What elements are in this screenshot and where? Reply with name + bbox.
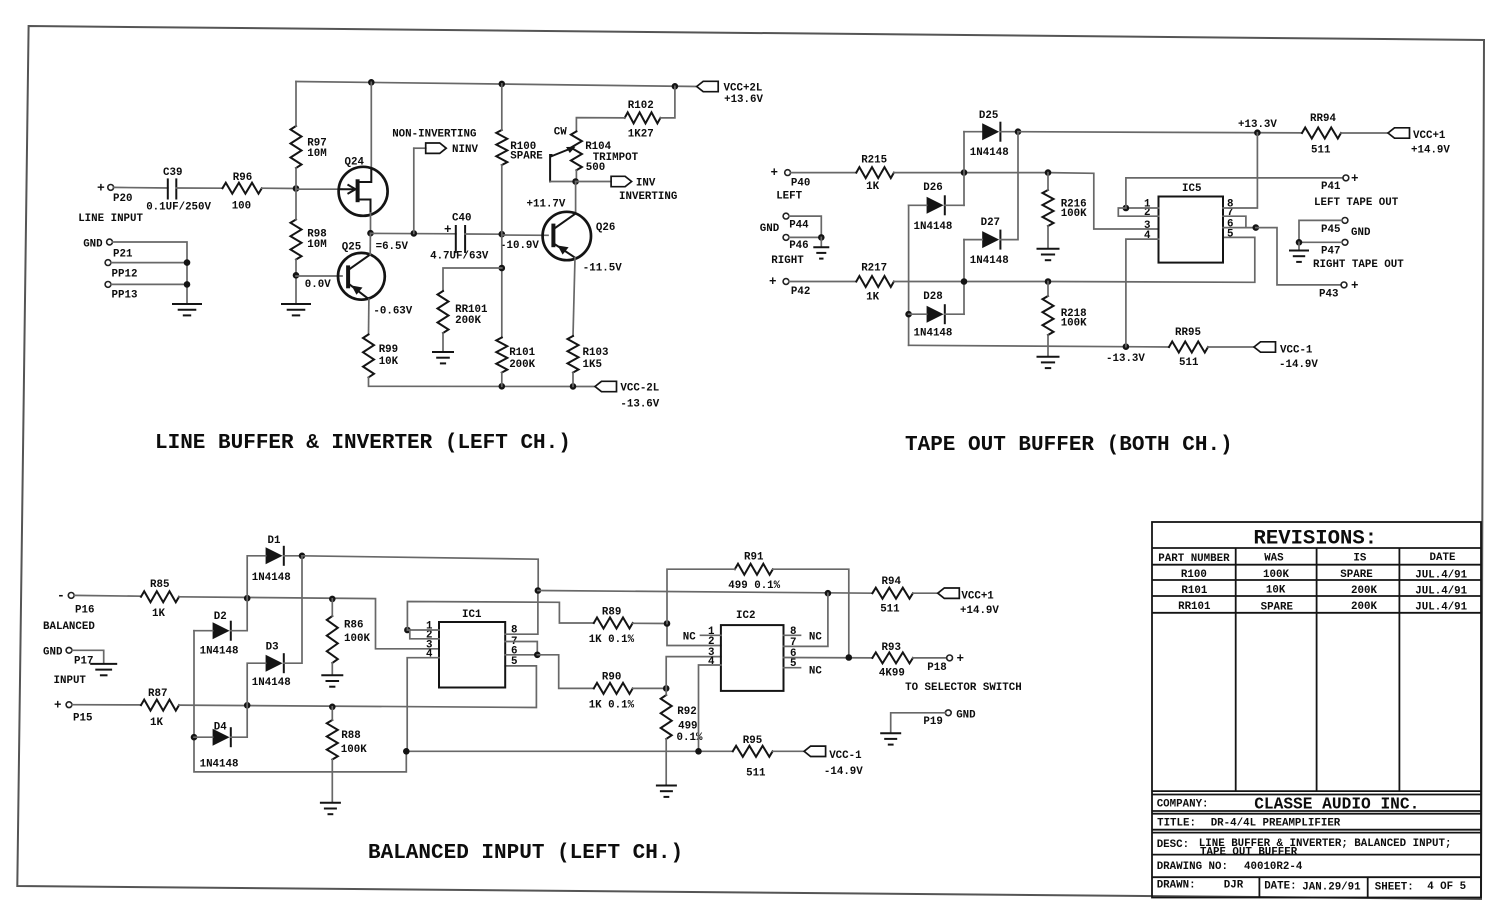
resistor R99 bbox=[363, 334, 399, 377]
wire node to R98 bbox=[295, 189, 297, 220]
junction -14.9V rail IC2 pin4 bbox=[695, 748, 702, 755]
wire P44 to ground stem bbox=[789, 216, 821, 237]
wire to INV flag bbox=[576, 181, 611, 183]
signal flag NINV non-inverting output bbox=[392, 129, 478, 157]
svg-text:=6.5V: =6.5V bbox=[376, 241, 409, 253]
transistor Q25 bbox=[338, 242, 385, 300]
svg-text:1N4148: 1N4148 bbox=[914, 328, 953, 340]
wire R91 right riser bbox=[773, 569, 849, 657]
svg-text:P18: P18 bbox=[927, 662, 946, 674]
title block frame bbox=[1152, 522, 1481, 898]
node P42 terminal right in bbox=[769, 275, 810, 298]
power flag VCC+1 tape bbox=[1388, 128, 1450, 157]
svg-text:INV: INV bbox=[636, 178, 656, 190]
svg-text:INPUT: INPUT bbox=[54, 675, 87, 687]
svg-text:R101: R101 bbox=[1181, 585, 1207, 597]
wire IC1 pin6 stub bbox=[505, 654, 537, 656]
svg-text:1N4148: 1N4148 bbox=[252, 677, 291, 689]
wire Q24 drain from rail bbox=[370, 82, 372, 170]
svg-text:1N4148: 1N4148 bbox=[970, 255, 1009, 267]
op-amp IC2 bbox=[708, 610, 796, 691]
op-amp IC5 bbox=[1144, 183, 1233, 263]
svg-text:10M: 10M bbox=[307, 148, 326, 160]
ground under R86 bbox=[321, 675, 343, 686]
wire Q24 source to node bbox=[370, 213, 372, 233]
resistor R88 100K bbox=[327, 720, 367, 760]
svg-text:IC1: IC1 bbox=[462, 609, 482, 621]
svg-text:100K: 100K bbox=[344, 633, 370, 645]
svg-text:BALANCED: BALANCED bbox=[43, 621, 95, 633]
svg-text:+11.7V: +11.7V bbox=[527, 199, 566, 211]
svg-text:Q26: Q26 bbox=[596, 222, 615, 234]
svg-text:VCC+1: VCC+1 bbox=[961, 591, 994, 603]
revision row R100 bbox=[1181, 569, 1468, 582]
wire D25 anode riser bbox=[963, 132, 965, 206]
title block title row bbox=[1157, 818, 1341, 830]
wire R92 top bbox=[665, 688, 667, 695]
svg-text:+13.3V: +13.3V bbox=[1238, 119, 1277, 131]
svg-text:RIGHT: RIGHT bbox=[771, 255, 804, 267]
revision row RR101 bbox=[1178, 601, 1468, 614]
junction P40 net D25/D26 bbox=[961, 169, 968, 176]
junction neg rail R101 bbox=[499, 383, 506, 390]
diode D25 1N4148 bbox=[970, 110, 1009, 159]
svg-text:TAPE OUT BUFFER (BOTH CH.): TAPE OUT BUFFER (BOTH CH.) bbox=[905, 434, 1233, 457]
svg-text:IC5: IC5 bbox=[1182, 183, 1201, 195]
svg-text:GND: GND bbox=[760, 223, 780, 235]
svg-text:P47: P47 bbox=[1321, 245, 1340, 257]
svg-text:VCC-2L: VCC-2L bbox=[620, 382, 659, 394]
title block company row bbox=[1157, 796, 1420, 814]
junction IC1 pin6 out B bbox=[534, 652, 541, 659]
wire R88 top bbox=[331, 707, 333, 720]
wire rail to R100 bbox=[501, 84, 503, 130]
svg-text:LEFT: LEFT bbox=[776, 190, 802, 202]
svg-text:499 0.1%: 499 0.1% bbox=[728, 580, 780, 592]
wire D25 anode stub bbox=[964, 131, 982, 133]
node P47 terminal bbox=[1313, 239, 1404, 271]
wire IC5 pin1 stub bbox=[1126, 207, 1159, 209]
svg-text:100: 100 bbox=[232, 201, 251, 213]
svg-text:R91: R91 bbox=[744, 552, 764, 564]
svg-text:200K: 200K bbox=[509, 359, 535, 371]
svg-text:4.7UF/63V: 4.7UF/63V bbox=[430, 250, 489, 262]
svg-text:R90: R90 bbox=[602, 672, 621, 684]
wire P21 to ground stem bbox=[112, 242, 187, 303]
wire R102 to rail bbox=[660, 86, 675, 118]
ground under R218 bbox=[1037, 357, 1060, 368]
wire R218 to ground bbox=[1047, 335, 1049, 356]
svg-text:1K: 1K bbox=[150, 717, 163, 729]
svg-text:10K: 10K bbox=[1266, 584, 1286, 596]
wire R97 bottom bbox=[295, 168, 297, 189]
svg-text:PART NUMBER: PART NUMBER bbox=[1158, 553, 1230, 565]
svg-text:100K: 100K bbox=[1263, 569, 1289, 581]
wire R89 to IC2 pin2 bbox=[633, 623, 721, 645]
svg-text:-13.6V: -13.6V bbox=[620, 398, 659, 410]
wire D2 cathode riser bbox=[231, 598, 247, 631]
wire +14.9V rail bbox=[538, 591, 873, 594]
wire P47 to ground stem bbox=[1299, 241, 1342, 243]
svg-text:RR101: RR101 bbox=[1178, 601, 1211, 613]
svg-text:P16: P16 bbox=[75, 604, 94, 616]
wire R87 to P15 net and IC1 pin5 bbox=[179, 666, 536, 708]
wire D3 cathode riser bbox=[284, 556, 302, 663]
svg-text:P20: P20 bbox=[113, 193, 132, 205]
svg-text:R99: R99 bbox=[379, 344, 398, 356]
wire R93 to P18 bbox=[913, 657, 947, 659]
svg-text:R101: R101 bbox=[509, 347, 535, 359]
svg-text:1K: 1K bbox=[866, 181, 879, 193]
svg-text:R95: R95 bbox=[743, 735, 762, 747]
junction -14.9V rail pin4 node bbox=[403, 748, 410, 755]
wire C39 to R96 bbox=[176, 187, 222, 189]
svg-text:1N4148: 1N4148 bbox=[200, 759, 239, 771]
wire to Q25 base bbox=[296, 275, 342, 277]
resistor R216 100K bbox=[1043, 190, 1088, 226]
diode D27 1N4148 bbox=[970, 217, 1009, 267]
junction RR101 tap bbox=[499, 265, 506, 272]
svg-text:INVERTING: INVERTING bbox=[619, 191, 677, 203]
junction Q25 base node 0.0V bbox=[293, 272, 300, 279]
wire RR95 to flag bbox=[1208, 346, 1254, 348]
wire R96 to gate node bbox=[262, 187, 296, 189]
svg-text:NC: NC bbox=[809, 666, 822, 678]
svg-text:VCC-1: VCC-1 bbox=[1280, 344, 1313, 356]
svg-text:VCC+1: VCC+1 bbox=[1413, 130, 1446, 142]
wire R90 to IC2 pin3 bbox=[633, 687, 667, 689]
wire Q26 emitter to R103 bbox=[573, 258, 575, 336]
wire P16 to R85 bbox=[74, 594, 141, 597]
svg-text:P41: P41 bbox=[1321, 181, 1341, 193]
node PP13 terminal bbox=[105, 282, 137, 302]
wire R216 to ground bbox=[1047, 226, 1049, 248]
svg-text:RR101: RR101 bbox=[455, 304, 488, 316]
svg-text:+: + bbox=[444, 223, 452, 237]
svg-text:R102: R102 bbox=[628, 100, 654, 112]
resistor R100 spare bbox=[496, 130, 543, 165]
junction V+ node bbox=[535, 587, 542, 594]
svg-text:LINE BUFFER & INVERTER (LEFT C: LINE BUFFER & INVERTER (LEFT CH.) bbox=[155, 432, 571, 455]
ground under R216 bbox=[1037, 249, 1060, 260]
svg-text:1N4148: 1N4148 bbox=[200, 646, 239, 658]
junction Q24 source / Q25 collector node bbox=[367, 230, 374, 237]
svg-text:10K: 10K bbox=[379, 356, 399, 368]
resistor R97 bbox=[291, 126, 327, 168]
ground under R98 bbox=[281, 304, 311, 315]
svg-text:+: + bbox=[1351, 279, 1359, 293]
svg-text:+: + bbox=[769, 275, 777, 289]
svg-text:RIGHT TAPE OUT: RIGHT TAPE OUT bbox=[1313, 259, 1404, 271]
resistor R91 499 0.1% feedback bbox=[728, 552, 780, 593]
resistor R98 bbox=[291, 220, 327, 260]
junction -10.9V node bbox=[499, 231, 506, 238]
svg-text:JUL.4/91: JUL.4/91 bbox=[1415, 585, 1467, 597]
wire D28 anode bbox=[909, 313, 927, 315]
svg-text:200K: 200K bbox=[1351, 585, 1377, 597]
node P20 line input terminal bbox=[97, 181, 132, 206]
svg-text:IC2: IC2 bbox=[736, 610, 755, 622]
svg-text:P17: P17 bbox=[74, 655, 93, 667]
svg-text:RR95: RR95 bbox=[1175, 327, 1201, 339]
wire RR101 to ground bbox=[442, 333, 444, 351]
svg-text:511: 511 bbox=[1311, 144, 1331, 156]
svg-text:P45: P45 bbox=[1321, 224, 1340, 236]
wire P19 to ground bbox=[891, 713, 946, 733]
wire PP12 to stem bbox=[111, 262, 187, 264]
junction P42 net D27/D28 bbox=[961, 278, 968, 285]
svg-text:R103: R103 bbox=[583, 347, 609, 359]
svg-text:C39: C39 bbox=[163, 167, 182, 179]
svg-text:4K99: 4K99 bbox=[879, 668, 905, 680]
wire NINV stub bbox=[414, 147, 426, 149]
svg-text:SHEET:: SHEET: bbox=[1375, 882, 1414, 894]
title block drawn row bbox=[1157, 880, 1466, 894]
ground under R88 bbox=[320, 803, 341, 814]
svg-text:P21: P21 bbox=[113, 249, 133, 261]
junction R90/R92 node bbox=[663, 685, 670, 692]
svg-text:511: 511 bbox=[746, 767, 766, 779]
wire P15 to R87 bbox=[72, 704, 141, 706]
wire IC5 pin8 V+ riser bbox=[1223, 133, 1257, 208]
wire node to C40 bbox=[371, 232, 456, 234]
junction PP12 stem bbox=[184, 259, 191, 266]
svg-text:500: 500 bbox=[586, 162, 605, 174]
svg-text:D3: D3 bbox=[266, 642, 279, 654]
node P45 gnd terminal bbox=[1321, 218, 1371, 240]
junction +13.3V rail IC5 pin8 bbox=[1254, 129, 1261, 136]
junction -13.3V rail IC5 pin4 bbox=[1123, 343, 1130, 350]
title block column headers bbox=[1158, 552, 1456, 565]
wire D27 riser from P42 net bbox=[963, 240, 965, 315]
wire IC1 pin2 feedback tie bbox=[407, 630, 439, 639]
wire P42 to R217 bbox=[789, 281, 856, 283]
wire -14.9V rail bbox=[406, 750, 733, 752]
svg-text:P40: P40 bbox=[791, 177, 810, 189]
wire IC5 pin2 feedback tie bbox=[1118, 208, 1158, 216]
wire R88 to ground bbox=[331, 760, 333, 803]
wire gate node to Q24 gate bbox=[296, 188, 342, 190]
junction IC2 pin6 / R91 / R93 bbox=[846, 654, 853, 661]
ground under RR101 bbox=[432, 352, 454, 363]
junction P15 net D3/D4 bbox=[244, 702, 251, 709]
wire R100 to R101 bbox=[501, 165, 503, 338]
svg-text:GND: GND bbox=[83, 239, 103, 251]
wire D28 cathode bbox=[945, 313, 964, 315]
svg-text:DATE: DATE bbox=[1430, 552, 1456, 564]
svg-text:TAPE OUT BUFFER: TAPE OUT BUFFER bbox=[1200, 846, 1298, 858]
svg-text:511: 511 bbox=[880, 604, 900, 616]
resistor R87 bbox=[141, 688, 179, 729]
resistor R94 511 bbox=[872, 576, 913, 616]
ground P45/P47 bbox=[1298, 242, 1300, 250]
wire R97 top to VCC rail bbox=[295, 82, 297, 127]
node P16 terminal balanced minus bbox=[57, 588, 94, 616]
svg-text:1K: 1K bbox=[866, 292, 879, 304]
transistor Q24 n-jfet bbox=[339, 157, 388, 216]
wire -13.3V rail bbox=[909, 345, 1169, 347]
resistor R218 100K bbox=[1043, 296, 1088, 335]
svg-text:R89: R89 bbox=[602, 607, 621, 619]
junction top rail Q24 drain bbox=[368, 79, 375, 86]
ground for line input commons bbox=[172, 304, 202, 315]
svg-text:1N4148: 1N4148 bbox=[914, 221, 953, 233]
wire R104 bottom bbox=[575, 170, 577, 181]
svg-text:+: + bbox=[771, 166, 779, 180]
svg-text:R88: R88 bbox=[341, 730, 360, 742]
wire IC2 pin6 output to R93 bbox=[784, 657, 873, 659]
node P44 gnd terminal bbox=[760, 213, 809, 235]
svg-text:D26: D26 bbox=[923, 182, 942, 194]
resistor RR101 bbox=[438, 291, 489, 333]
wire D3 anode riser bbox=[247, 663, 265, 705]
wire IC2 pin7 V+ riser bbox=[784, 593, 828, 646]
svg-text:RR94: RR94 bbox=[1310, 113, 1336, 125]
svg-text:D25: D25 bbox=[979, 110, 998, 122]
power flag VCC+2L bbox=[697, 81, 764, 106]
wire P46 to ground stem bbox=[789, 236, 821, 238]
svg-text:DR-4/4L PREAMPLIFIER: DR-4/4L PREAMPLIFIER bbox=[1211, 818, 1341, 830]
svg-text:R94: R94 bbox=[882, 576, 902, 588]
wire IC1 pin4 V- riser bbox=[407, 658, 439, 752]
resistor R101 bbox=[496, 338, 535, 373]
node P17 gnd terminal bbox=[43, 647, 93, 668]
svg-text:P46: P46 bbox=[789, 240, 808, 252]
wire NINV riser bbox=[413, 148, 415, 233]
wire IC1 pin1 stub bbox=[407, 629, 439, 631]
junction P15 net R88 bbox=[329, 704, 336, 711]
svg-text:D27: D27 bbox=[981, 217, 1000, 229]
junction P16 net D1/D2 bbox=[244, 595, 251, 602]
revision row R101 bbox=[1181, 584, 1467, 597]
resistor R96 bbox=[223, 172, 262, 213]
svg-text:CLASSE AUDIO INC.: CLASSE AUDIO INC. bbox=[1254, 796, 1419, 814]
op-amp IC1 dual follower bbox=[426, 609, 517, 688]
wire +13.3V rail bbox=[1018, 132, 1302, 133]
junction inverting node bbox=[572, 178, 579, 185]
node P18 terminal to selector bbox=[927, 652, 964, 674]
svg-text:D1: D1 bbox=[268, 535, 281, 547]
wire PP13 to stem bbox=[111, 283, 187, 285]
diode D28 1N4148 bbox=[914, 291, 953, 340]
svg-text:GND: GND bbox=[956, 710, 976, 722]
ground P17 bbox=[90, 664, 117, 675]
wire R215 to P40 net bbox=[894, 173, 1159, 229]
junction +14.9V rail IC2 pin7 bbox=[825, 590, 832, 597]
wire D2 anode vertical bbox=[194, 630, 213, 632]
junction P45/P47 gnd bbox=[1296, 239, 1303, 246]
wire P20 to C39 bbox=[114, 186, 168, 189]
diode D3 1N4148 bbox=[252, 642, 291, 690]
svg-text:P44: P44 bbox=[789, 220, 809, 232]
wire node to Q26 base bbox=[502, 234, 548, 236]
junction IC1 pin1 bbox=[404, 627, 411, 634]
svg-text:+13.6V: +13.6V bbox=[724, 94, 763, 106]
svg-text:Q25: Q25 bbox=[342, 242, 361, 254]
wire IC5 pin4 V- riser bbox=[1126, 239, 1159, 347]
svg-text:SPARE: SPARE bbox=[1340, 569, 1373, 581]
wire VCC+2L top rail bbox=[296, 82, 697, 87]
resistor R90 1K 0.1% bbox=[589, 672, 635, 712]
capacitor C40 bbox=[430, 212, 489, 262]
wire R104 top to R102 bbox=[576, 118, 624, 132]
svg-text:R93: R93 bbox=[882, 642, 901, 654]
wire P45 to ground stem bbox=[1299, 220, 1342, 242]
svg-text:R215: R215 bbox=[861, 154, 887, 166]
svg-text:200K: 200K bbox=[455, 315, 481, 327]
junction D28 anode bbox=[905, 311, 912, 318]
junction NINV tap bbox=[411, 230, 418, 237]
svg-text:R87: R87 bbox=[148, 688, 167, 700]
svg-text:DRAWING NO:: DRAWING NO: bbox=[1157, 861, 1228, 873]
svg-text:JUL.4/91: JUL.4/91 bbox=[1415, 601, 1467, 613]
svg-text:GND: GND bbox=[1351, 227, 1371, 239]
wire D4 cathode riser bbox=[231, 705, 247, 737]
wire R86 to ground bbox=[331, 663, 333, 675]
svg-text:+: + bbox=[957, 652, 965, 666]
wire R101 bottom bbox=[501, 373, 503, 387]
junction IC5 pin1 bbox=[1123, 205, 1130, 212]
title block drawing number row bbox=[1157, 861, 1303, 873]
svg-text:NINV: NINV bbox=[452, 144, 478, 156]
svg-text:VCC+2L: VCC+2L bbox=[724, 83, 763, 95]
svg-text:R96: R96 bbox=[233, 172, 252, 184]
svg-text:5: 5 bbox=[1227, 228, 1233, 240]
wire negative clamp vertical bbox=[908, 205, 910, 345]
svg-text:WAS: WAS bbox=[1264, 552, 1284, 564]
svg-text:REVISIONS:: REVISIONS: bbox=[1254, 528, 1378, 551]
wire R216 top bbox=[1047, 173, 1049, 190]
wire IC2 pin8 NC stub bbox=[784, 634, 801, 636]
wire R218 top bbox=[1047, 282, 1049, 297]
power flag VCC-2L bbox=[595, 381, 660, 410]
svg-text:0.1UF/250V: 0.1UF/250V bbox=[146, 202, 211, 214]
svg-text:1K 0.1%: 1K 0.1% bbox=[589, 700, 635, 712]
svg-text:NC: NC bbox=[809, 632, 822, 644]
svg-text:4: 4 bbox=[1144, 230, 1151, 242]
svg-text:-11.5V: -11.5V bbox=[583, 263, 622, 275]
node P19 gnd terminal bbox=[923, 710, 976, 729]
resistor R102 bbox=[625, 100, 661, 140]
wire node to IC2 pin3 bbox=[666, 657, 721, 689]
wire IC5 pin6 stub bbox=[1223, 227, 1256, 229]
wire D4 anode bbox=[194, 736, 213, 738]
wire Q25 emitter to R99 bbox=[368, 299, 370, 334]
junction PP13 stem bbox=[184, 281, 191, 288]
svg-text:1K: 1K bbox=[152, 608, 165, 620]
resistor R89 1K 0.1% bbox=[589, 607, 635, 647]
junction top rail R102 bbox=[672, 83, 679, 90]
node P43 terminal right tape out bbox=[1319, 279, 1359, 301]
svg-text:+: + bbox=[1351, 172, 1359, 186]
svg-text:NON-INVERTING: NON-INVERTING bbox=[392, 129, 476, 141]
junction neg rail R103 bbox=[570, 383, 577, 390]
diode D1 1N4148 bbox=[252, 535, 291, 584]
svg-text:TITLE:: TITLE: bbox=[1157, 818, 1196, 830]
svg-text:100K: 100K bbox=[341, 744, 367, 756]
diode D4 1N4148 bbox=[200, 722, 239, 771]
svg-text:P43: P43 bbox=[1319, 288, 1338, 300]
svg-text:4: 4 bbox=[426, 649, 433, 661]
node PP12 terminal bbox=[105, 260, 137, 281]
node P40 terminal left in bbox=[771, 166, 811, 202]
wire R104 wiper to inverting node bbox=[550, 181, 576, 183]
svg-text:40010R2-4: 40010R2-4 bbox=[1244, 861, 1303, 873]
wire IC2 pin1 NC stub bbox=[701, 634, 721, 636]
capacitor C39 bbox=[146, 167, 211, 214]
wire IC2 pin5 NC stub bbox=[784, 667, 801, 669]
svg-text:PP12: PP12 bbox=[112, 269, 138, 281]
